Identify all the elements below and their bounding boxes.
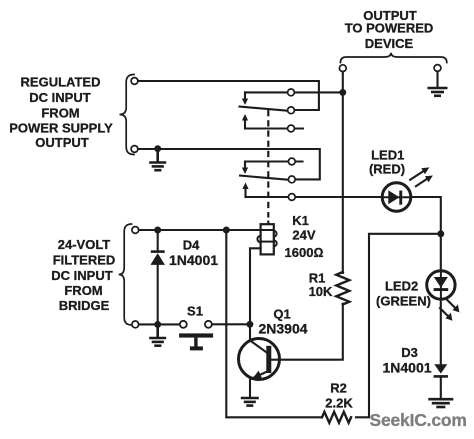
svg-text:24-VOLT: 24-VOLT	[58, 237, 111, 252]
svg-text:TO POWERED: TO POWERED	[345, 21, 434, 36]
svg-text:R2: R2	[330, 381, 347, 396]
relay contact set 2: upper stationary contact circle	[288, 158, 295, 165]
svg-text:Q1: Q1	[273, 307, 290, 322]
svg-text:24V: 24V	[292, 228, 315, 243]
svg-text:10K: 10K	[309, 284, 333, 299]
junction: coil / collector / S1	[246, 321, 253, 328]
terminal: regulated DC input +	[131, 78, 138, 85]
wire: regulated + input to relay contact set 1 bracket	[138, 81, 319, 110]
relay contact set 1: pole arrow (down)	[244, 92, 246, 100]
svg-text:DC INPUT: DC INPUT	[29, 90, 90, 105]
svg-text:FROM: FROM	[41, 106, 79, 121]
junction: LED1 / R2 / LED2	[437, 230, 444, 237]
svg-text:REGULATED: REGULATED	[21, 75, 101, 90]
terminal: regulated DC input -	[131, 146, 138, 153]
junction: R2 feed tap on 24V + rail	[223, 227, 230, 234]
relay contact set 2: NO line to LED1	[246, 196, 383, 198]
wire: LED2 to D3	[440, 299, 442, 364]
relay contact set 1: NO line with stub	[245, 127, 303, 129]
wire: junction down to LED2	[440, 234, 442, 271]
diode D3 (cathode down)	[434, 364, 447, 373]
wire: coil bottom lead to collector junction	[250, 248, 261, 324]
diode D4 (cathode up)	[157, 230, 159, 250]
node label: OUTPUT TO POWERED DEVICE	[345, 8, 434, 51]
svg-text:1N4001: 1N4001	[169, 252, 218, 268]
svg-text:FILTERED: FILTERED	[53, 253, 116, 268]
wire: 24V - to S1	[139, 323, 180, 325]
svg-text:OUTPUT: OUTPUT	[35, 135, 89, 150]
relay contact set 1: moving contact circle	[288, 107, 295, 114]
wire: 24V rail down to R2 (left leg + bottom run)	[226, 230, 322, 417]
relay contact set 1: NO contact circle	[288, 125, 295, 132]
junction: D4 tap on 24V + rail	[154, 227, 161, 234]
relay contact set 2: pole arrow (down)	[244, 162, 246, 170]
svg-text:BRIDGE: BRIDGE	[59, 298, 110, 313]
svg-text:2.2K: 2.2K	[325, 396, 353, 411]
svg-text:1N4001: 1N4001	[382, 359, 431, 375]
LED1 (red)	[382, 167, 433, 211]
svg-text:S1: S1	[187, 304, 203, 319]
wire: R2 right to LED junction (up the right side)	[356, 234, 441, 417]
node label: 24-VOLT FILTERED DC INPUT FROM BRIDGE	[51, 237, 115, 313]
wire: LED1 cathode to LED junction	[411, 197, 440, 234]
svg-text:1600Ω: 1600Ω	[285, 245, 324, 260]
svg-text:LED2: LED2	[385, 279, 418, 294]
relay contact set 2: NO arrow (up)	[244, 187, 246, 197]
brace for output to powered device	[340, 53, 446, 63]
transistor Q1 2N3904	[239, 324, 280, 397]
terminal: 24V filtered -	[132, 321, 139, 328]
relay contact set 1: armature	[240, 107, 288, 111]
svg-text:(RED): (RED)	[369, 162, 405, 177]
wire: 24V + rail to relay coil K1	[139, 229, 261, 231]
svg-text:K1: K1	[292, 213, 309, 228]
wire: S1 to collector junction	[212, 323, 250, 325]
wire: R1 bottom to Q1 base	[271, 304, 342, 360]
junction: ground tap on 24V - wire	[154, 321, 161, 328]
wire: output - terminal to ground	[436, 71, 438, 86]
terminal: 24V filtered +	[132, 227, 139, 234]
ground: 24V - input	[149, 324, 166, 345]
resistor R2 2.2K (horizontal zigzag)	[322, 412, 351, 423]
node label: REGULATED DC INPUT FROM POWER SUPPLY OUTPUT	[9, 75, 113, 151]
junction: ground tap on regulated - wire	[154, 145, 161, 152]
svg-text:SeekIC.com: SeekIC.com	[370, 410, 467, 430]
wire: output + bus (vertical) down to R1 top	[342, 72, 344, 273]
ground: Q1 emitter	[241, 398, 259, 406]
junction: contact 1 line joins output bus	[339, 89, 346, 96]
mechanical link (dashed) from armatures to relay coil K1	[267, 110, 269, 116]
svg-text:2N3904: 2N3904	[258, 321, 307, 337]
pushbutton S1	[180, 321, 187, 328]
svg-text:(GREEN): (GREEN)	[376, 294, 431, 309]
ground: D3 cathode	[428, 399, 453, 407]
resistor R1 10K (vertical zigzag)	[336, 272, 349, 304]
relay contact set 2: armature	[240, 176, 288, 180]
terminal: output +	[339, 65, 346, 72]
terminal: output -	[434, 65, 441, 72]
relay coil K1	[257, 224, 276, 254]
relay contact set 1: upper stationary contact circle	[288, 89, 295, 96]
svg-text:DEVICE: DEVICE	[365, 36, 414, 51]
wire: regulated - input to relay contact set 2 bracket	[138, 149, 320, 179]
relay contact set 2: moving contact circle	[288, 176, 295, 183]
brace for 24-volt filtered DC input	[119, 224, 132, 325]
svg-text:LED1: LED1	[371, 148, 404, 163]
svg-text:POWER SUPPLY: POWER SUPPLY	[9, 121, 113, 136]
LED2 (green)	[427, 271, 460, 321]
svg-text:FROM: FROM	[64, 283, 102, 298]
relay contact set 2: common line with stub	[245, 160, 303, 162]
svg-text:D4: D4	[183, 238, 200, 253]
svg-text:D3: D3	[401, 345, 418, 360]
relay contact set 1: NO arrow (up)	[244, 118, 246, 128]
ground: output -	[428, 88, 448, 96]
brace for regulated DC input	[120, 75, 135, 155]
relay contact set 2: NO contact circle	[288, 194, 295, 201]
svg-text:DC INPUT: DC INPUT	[51, 268, 112, 283]
ground: regulated - input	[149, 149, 166, 171]
relay contact set 1: common line to output	[245, 91, 343, 93]
